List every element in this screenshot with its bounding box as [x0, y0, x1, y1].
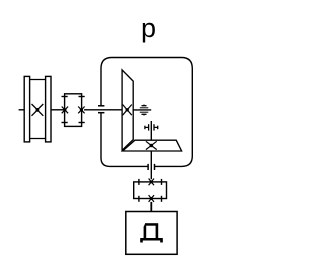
upper bearing of vertical shaft — [150, 121, 152, 140]
shaft pulley to coupling — [51, 109, 65, 111]
shaft stub right of wheel — [133, 109, 151, 111]
bevel gear wheel (vertical, on input shaft) — [122, 70, 133, 150]
shaft stub left of pulley — [19, 109, 25, 111]
motor shaft — [150, 202, 152, 212]
reducer housing P — [101, 58, 192, 167]
pulley X (fixed on shaft) — [32, 104, 44, 116]
pulley rim top line — [30, 79, 46, 81]
coupling M1 body — [65, 94, 82, 127]
coupling M1 left X — [62, 107, 68, 114]
pulley right flange — [46, 76, 51, 141]
coupling M2 body — [134, 182, 167, 199]
bevel pinion X — [146, 141, 157, 149]
coupling M1 right X — [78, 107, 84, 114]
bearing left wall (input shaft) — [98, 106, 104, 113]
coupling M2 bottom X — [149, 195, 154, 202]
vertical shaft (gear to coupling) — [150, 152, 152, 180]
svg-text:p: p — [141, 13, 156, 43]
input shaft into housing — [84, 109, 122, 111]
bevel pinion (horizontal, on vertical shaft) — [123, 140, 182, 151]
bearing bottom wall (output shaft) — [148, 164, 154, 170]
pulley left flange — [24, 76, 29, 141]
pulley rim bottom line — [30, 138, 46, 140]
coupling M2 top X — [149, 179, 154, 186]
bearing at input shaft end — [140, 108, 149, 112]
coupling M1 ticks — [62, 97, 85, 123]
motor label Д — [140, 223, 163, 242]
motor box — [126, 212, 177, 255]
coupling M2 ticks — [139, 179, 162, 202]
bevel wheel X — [123, 105, 132, 116]
